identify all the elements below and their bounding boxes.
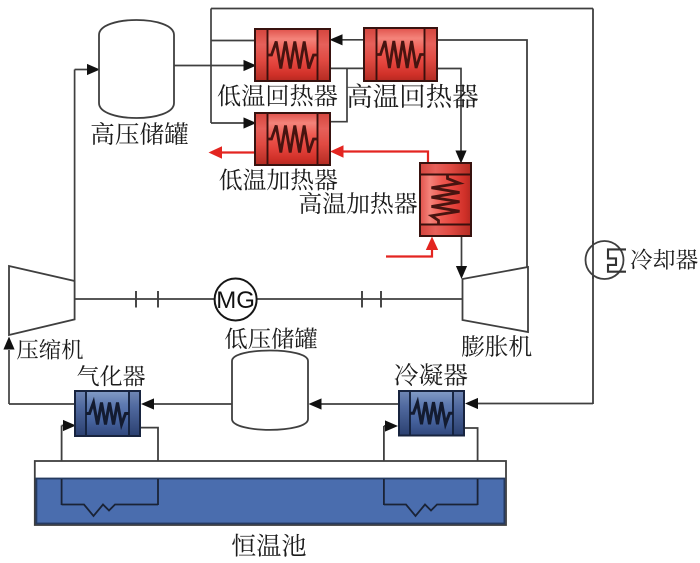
svg-text:MG: MG: [216, 287, 255, 314]
